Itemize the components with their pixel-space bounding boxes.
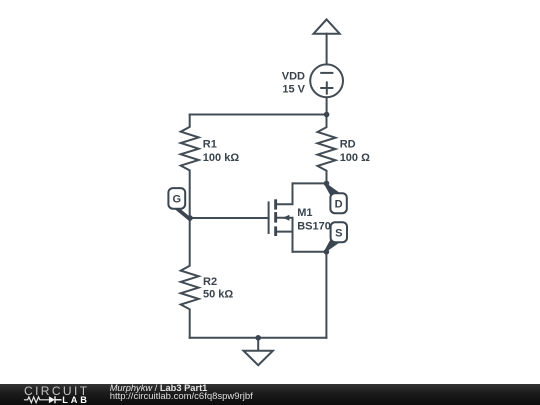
junction dot ground node [255, 335, 261, 341]
wire source horizontal [293, 251, 327, 253]
voltage source minus sign [321, 72, 332, 74]
footer url text [110, 393, 253, 402]
wire top horizontal [190, 114, 327, 116]
junction dot source node [324, 249, 330, 255]
svg-text:G: G [173, 194, 182, 206]
mosfet M1 body line [277, 218, 293, 232]
svg-text:100 Ω: 100 Ω [340, 152, 370, 164]
svg-text:VDD: VDD [282, 70, 305, 82]
svg-text:RD: RD [340, 138, 356, 150]
wire flag to source [326, 34, 328, 64]
svg-text:LAB: LAB [62, 395, 90, 405]
logo schematic row [23, 395, 93, 405]
svg-text:S: S [335, 228, 342, 240]
mosfet M1 drain lead [277, 183, 293, 204]
node D box [330, 193, 346, 213]
node S pointer [325, 238, 341, 252]
wire drain horizontal [293, 182, 327, 184]
node S box [331, 222, 347, 242]
resistor R1 [181, 115, 199, 219]
footer bar [0, 384, 540, 405]
mosfet M1 body arrow [283, 215, 289, 221]
mosfet M1 gate plate [268, 202, 270, 233]
svg-text:R1: R1 [203, 138, 217, 150]
mosfet M1 channel bar middle [274, 212, 277, 223]
power flag VDD triangle [314, 19, 340, 33]
svg-text:50 kΩ: 50 kΩ [203, 288, 233, 300]
node D pointer [325, 183, 341, 197]
logo diode [49, 396, 55, 403]
svg-text:M1: M1 [297, 207, 312, 219]
voltage source VDD circle [310, 64, 343, 97]
svg-text:R2: R2 [203, 276, 217, 288]
resistor R2 [181, 218, 199, 338]
ground triangle [244, 351, 273, 366]
svg-text:BS170: BS170 [297, 221, 331, 233]
voltage source plus sign [321, 82, 332, 93]
node G box [168, 188, 185, 209]
junction dot gate node [187, 215, 193, 221]
mosfet M1 channel bar bottom [274, 226, 277, 236]
logo CIRCUIT text [24, 386, 89, 396]
svg-text:D: D [335, 199, 343, 211]
wire source to node [326, 98, 328, 114]
mosfet M1 channel bar top [274, 199, 277, 209]
ground stub [257, 338, 259, 351]
wire right vertical [325, 252, 327, 338]
node G pointer [171, 206, 190, 220]
mosfet M1 source lead [277, 232, 293, 252]
svg-text:100 kΩ: 100 kΩ [203, 152, 240, 164]
logo resistor zigzag [24, 396, 49, 402]
wire bottom horizontal [190, 337, 327, 339]
junction dot drain node [324, 181, 330, 187]
svg-text:15 V: 15 V [282, 83, 305, 95]
junction dot VDD node [324, 112, 330, 118]
resistor RD [318, 115, 336, 184]
footer title text [110, 384, 208, 393]
wire gate horizontal [190, 217, 269, 219]
